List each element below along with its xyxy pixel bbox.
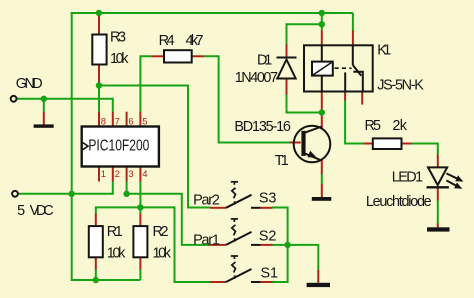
svg-text:5: 5 <box>17 203 25 219</box>
switch S2 <box>226 219 260 245</box>
pin R3 bottom red lead <box>98 65 100 84</box>
svg-text:8: 8 <box>101 117 106 128</box>
wire top rail 5V <box>71 12 353 14</box>
wire R4 left to pin5 <box>140 56 151 111</box>
svg-text:PIC10F200: PIC10F200 <box>88 138 149 155</box>
resistor R5 <box>373 138 402 149</box>
transistor T1 BD135-16 <box>294 126 331 163</box>
wire R1 bottom <box>95 269 97 280</box>
ground (LED) <box>427 227 450 231</box>
wire diode bottom to collector node <box>287 94 322 113</box>
pin R1 top lead <box>95 214 97 227</box>
pin R5 left lead <box>364 143 373 145</box>
relay K1 <box>304 45 373 91</box>
node junction dots <box>41 10 325 283</box>
svg-text:4k7: 4k7 <box>186 33 204 49</box>
ground (switches) <box>307 283 330 287</box>
node relay branch top rail <box>319 10 325 16</box>
pin S2 left stub <box>210 244 226 246</box>
wire pin4 stub down <box>139 182 141 215</box>
svg-text:1: 1 <box>101 169 106 180</box>
node R3 bottom / pin8 <box>96 82 102 88</box>
LED LED1 <box>427 167 464 188</box>
pin S3 right stub <box>260 207 272 209</box>
terminal GND <box>11 96 17 102</box>
diode D1 <box>277 58 297 79</box>
wire R4 right to transistor base <box>204 56 290 142</box>
svg-text:Par2: Par2 <box>193 193 220 209</box>
pin emitter ground stub <box>321 184 323 197</box>
pin S1 right stub <box>260 281 272 283</box>
svg-text:7: 7 <box>115 117 120 128</box>
svg-text:S3: S3 <box>259 190 277 206</box>
resistor R1 <box>89 226 103 257</box>
svg-text:LED1: LED1 <box>392 170 424 186</box>
svg-text:GND: GND <box>16 76 43 92</box>
node GND ground branch <box>41 96 47 102</box>
LED arrows <box>446 173 457 178</box>
resistor R2 <box>133 226 147 257</box>
svg-text:R5: R5 <box>365 118 382 134</box>
svg-text:VDC: VDC <box>30 203 54 219</box>
svg-text:R2: R2 <box>153 224 169 240</box>
svg-text:S1: S1 <box>261 266 279 282</box>
wire GND horizontal <box>17 99 113 112</box>
pin PIC 6 stub <box>126 112 128 127</box>
wire LED cathode down to ground <box>437 200 439 224</box>
pin R3 top red lead <box>98 14 100 35</box>
switch S3 <box>226 182 260 208</box>
ground (emitter) <box>312 197 332 201</box>
pin numbers <box>101 117 148 181</box>
svg-text:R3: R3 <box>110 30 126 46</box>
IC U1 PIC10F200 <box>82 127 159 167</box>
pin PIC 7 stub <box>112 112 114 127</box>
ground (left GND) <box>34 124 54 127</box>
svg-text:10k: 10k <box>107 245 126 261</box>
pin R4 left lead <box>152 55 165 57</box>
pin PIC 4 stub <box>139 167 141 182</box>
node R1 bottom <box>93 277 99 283</box>
pin PIC 2 stub <box>112 167 114 182</box>
wire R2 bottom <box>139 269 141 280</box>
wire GND branch to ground symbol <box>43 99 45 112</box>
pin relay common top lead <box>352 31 354 46</box>
node collector / diode / coil <box>319 109 325 115</box>
pin PIC 8 stub <box>98 112 100 127</box>
node switch common <box>284 242 290 248</box>
pin S1 left stub <box>210 281 226 283</box>
svg-text:Par1: Par1 <box>193 233 220 249</box>
node R3 top rail <box>96 10 102 16</box>
wire left rail vertical <box>71 12 73 281</box>
relay actuation dashes <box>335 67 352 69</box>
resistor R3 <box>92 35 106 65</box>
pin LED cathode lead <box>437 188 439 200</box>
wire top rail to diode top <box>321 13 323 31</box>
wire pin3 to S2 <box>127 182 211 245</box>
svg-text:T1: T1 <box>275 153 289 169</box>
node pin4 R1 R2 <box>137 204 143 210</box>
wire relay common pin from top rail <box>352 13 354 31</box>
switch S1 <box>226 256 260 282</box>
relay contact <box>352 45 354 65</box>
pin R2 top lead <box>139 214 141 226</box>
terminal 5VDC <box>12 191 18 197</box>
svg-text:K1: K1 <box>377 43 391 59</box>
pin diode top lead <box>286 45 288 58</box>
pin relay NO bottom lead <box>344 92 346 101</box>
svg-text:4: 4 <box>142 169 147 180</box>
wire pin4 to R1 R2 tops and S1 <box>96 207 211 282</box>
wire S-node to switch ground <box>288 245 319 271</box>
pin ground-left stub <box>43 112 45 125</box>
svg-text:2k: 2k <box>392 118 407 134</box>
pin S3 left stub <box>210 207 226 209</box>
node pin3 <box>123 191 129 197</box>
pin LED ground stub <box>437 224 439 228</box>
wire 5VDC horizontal to pin2 <box>19 182 113 194</box>
pin R2 bottom lead <box>139 257 141 269</box>
wire pin8 to R3 junction <box>98 86 100 112</box>
wire relay NO pin down to R5 <box>345 100 364 144</box>
node 5VDC rail <box>69 191 75 197</box>
pin LED anode lead <box>437 155 439 168</box>
svg-text:JS-5N-K: JS-5N-K <box>377 78 424 94</box>
pin S2 right stub <box>260 244 272 246</box>
pin R4 right lead <box>192 55 205 57</box>
wire S2 right to S-node <box>272 244 288 246</box>
svg-text:6: 6 <box>128 117 133 128</box>
pin diode bottom lead <box>286 79 288 95</box>
pin transistor emitter lead <box>321 160 323 174</box>
pin R1 bottom lead <box>95 257 97 269</box>
wire emitter to ground <box>321 174 323 185</box>
wire bottom-left horizontal to R1 R2 bottoms <box>72 279 141 281</box>
svg-text:5: 5 <box>142 117 147 128</box>
pin relay coil bottom to collector node <box>321 92 323 130</box>
svg-text:Leuchtdiode: Leuchtdiode <box>366 194 432 210</box>
svg-text:R4: R4 <box>159 33 175 49</box>
pin relay NC bottom stub <box>361 92 363 105</box>
pin PIC 5 stub <box>139 112 141 127</box>
svg-text:10k: 10k <box>153 245 172 261</box>
svg-text:1N4007: 1N4007 <box>235 70 278 86</box>
svg-text:BD135-16: BD135-16 <box>234 119 291 135</box>
svg-text:3: 3 <box>128 169 133 180</box>
wire S3 right down to S-node <box>272 208 288 283</box>
svg-text:2: 2 <box>115 169 120 180</box>
svg-text:D1: D1 <box>257 53 272 69</box>
resistor R4 <box>164 50 192 62</box>
wire net R3/pin8 to S3 <box>99 86 211 208</box>
pin transistor base lead <box>290 142 301 144</box>
svg-text:R1: R1 <box>107 224 123 240</box>
pin PIC 1 stub <box>98 167 100 182</box>
wire R5 right to LED <box>411 144 438 156</box>
pin PIC 3 stub <box>126 167 128 182</box>
pin relay coil top lead <box>321 31 323 46</box>
relay coil <box>312 62 333 76</box>
svg-text:10k: 10k <box>110 51 129 67</box>
svg-text:S2: S2 <box>259 229 277 245</box>
node diode top / coil <box>319 21 325 27</box>
pin switch-ground stub <box>317 270 319 283</box>
pin R5 right lead <box>402 143 412 145</box>
